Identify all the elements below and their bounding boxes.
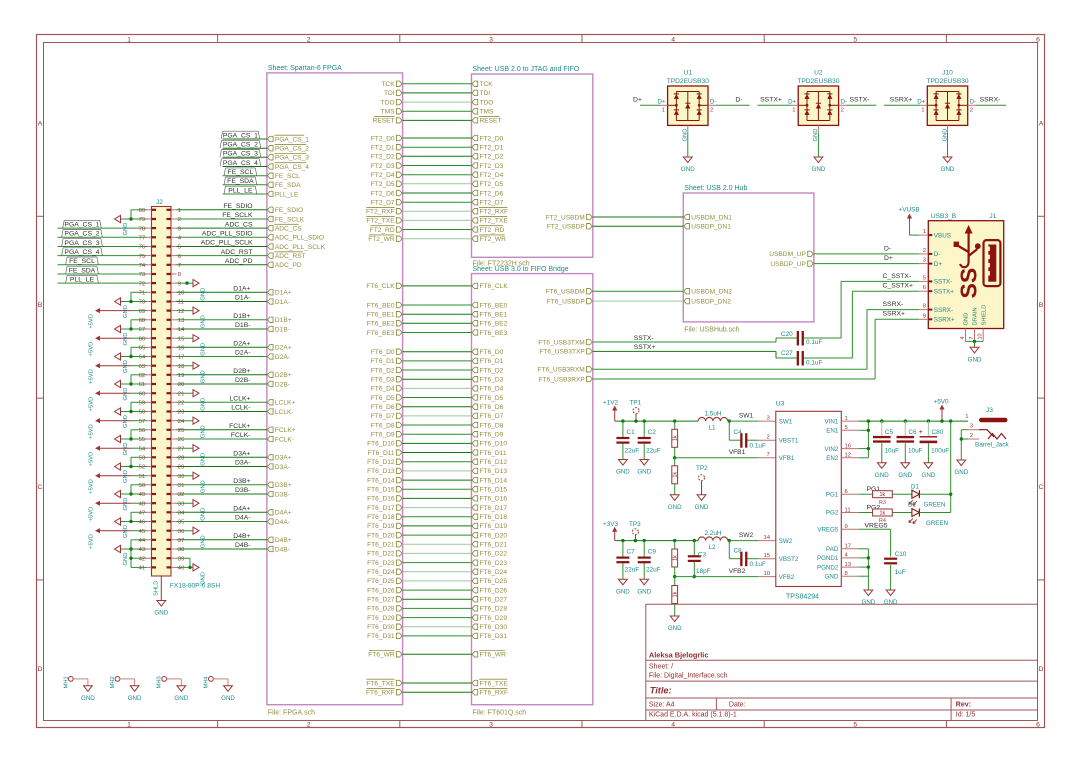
svg-text:FX18-80P-0.8SH: FX18-80P-0.8SH [170, 583, 220, 590]
svg-text:TPD2EUSB30: TPD2EUSB30 [667, 78, 709, 85]
svg-text:TPD2EUSB30: TPD2EUSB30 [926, 78, 968, 85]
svg-text:C7: C7 [627, 549, 636, 556]
svg-text:KiCad E.D.A. kicad (5.1.8)-1: KiCad E.D.A. kicad (5.1.8)-1 [649, 711, 737, 718]
svg-text:GND: GND [681, 166, 695, 173]
svg-text:PGA_CS_1: PGA_CS_1 [275, 136, 309, 143]
svg-text:1.5uH: 1.5uH [704, 411, 721, 418]
svg-text:FT2_D0: FT2_D0 [480, 135, 504, 142]
svg-text:+1V2: +1V2 [603, 400, 619, 407]
svg-text:11: 11 [178, 300, 184, 306]
svg-text:FT6_D6: FT6_D6 [371, 404, 395, 411]
svg-text:Date:: Date: [729, 702, 746, 709]
svg-text:9: 9 [178, 281, 181, 287]
svg-text:16: 16 [178, 346, 185, 352]
svg-text:GND: GND [812, 166, 826, 173]
svg-text:9: 9 [923, 313, 926, 319]
svg-text:ADC_RST: ADC_RST [221, 249, 253, 256]
svg-text:Rev:: Rev: [956, 702, 971, 709]
svg-text:FT6_RXF: FT6_RXF [480, 690, 509, 697]
svg-text:ADC_PLL_SDIO: ADC_PLL_SDIO [202, 231, 253, 238]
svg-text:23: 23 [178, 410, 185, 416]
svg-text:5: 5 [853, 722, 857, 729]
svg-text:TP1: TP1 [630, 400, 642, 407]
svg-text:13: 13 [845, 562, 852, 568]
svg-text:2: 2 [923, 248, 926, 254]
svg-text:C4: C4 [734, 429, 743, 436]
svg-text:FT6_D30: FT6_D30 [480, 624, 508, 631]
svg-text:79: 79 [139, 217, 146, 223]
svg-text:+5VD: +5VD [89, 534, 95, 549]
svg-text:PGA_CS_4: PGA_CS_4 [275, 164, 309, 171]
svg-text:FT2_D5: FT2_D5 [480, 181, 504, 188]
svg-text:1k: 1k [880, 511, 886, 517]
svg-text:SSTX+: SSTX+ [760, 97, 782, 104]
svg-text:FT6_BE3: FT6_BE3 [367, 330, 395, 337]
svg-text:U3: U3 [776, 401, 785, 408]
svg-text:FT6_D5: FT6_D5 [480, 395, 504, 402]
svg-text:2: 2 [841, 108, 844, 114]
svg-text:FT6_BE1: FT6_BE1 [367, 312, 395, 319]
svg-text:24: 24 [178, 419, 185, 425]
svg-text:SW1: SW1 [779, 418, 793, 425]
svg-text:SSRX+: SSRX+ [890, 97, 913, 104]
svg-text:USBDP_DN1: USBDP_DN1 [691, 224, 731, 231]
svg-text:D1B-: D1B- [275, 326, 290, 333]
svg-text:D4A+: D4A+ [233, 506, 250, 513]
svg-text:EN2: EN2 [826, 455, 839, 462]
svg-text:D: D [1039, 666, 1044, 673]
svg-text:D3A-: D3A- [235, 460, 251, 467]
svg-text:FT6_D21: FT6_D21 [367, 542, 395, 549]
svg-text:C80: C80 [932, 429, 944, 436]
svg-text:FT6_D16: FT6_D16 [367, 496, 395, 503]
svg-text:29: 29 [178, 465, 185, 471]
svg-text:D: D [38, 666, 43, 673]
svg-text:25: 25 [178, 428, 185, 434]
svg-text:DRAIN: DRAIN [972, 307, 978, 325]
svg-text:FT6_USB3RXM: FT6_USB3RXM [538, 367, 585, 374]
svg-text:15: 15 [764, 553, 771, 559]
svg-text:L1: L1 [708, 425, 716, 432]
svg-text:FT6_D11: FT6_D11 [480, 450, 507, 457]
svg-text:FT6_D23: FT6_D23 [480, 560, 508, 567]
svg-text:18pF: 18pF [696, 568, 711, 575]
svg-text:GND: GND [123, 223, 129, 236]
svg-text:TP2: TP2 [696, 465, 708, 472]
svg-text:D+: D+ [917, 98, 925, 105]
svg-text:GND: GND [123, 498, 129, 511]
svg-text:J2: J2 [156, 199, 163, 206]
svg-text:6: 6 [1036, 37, 1040, 44]
svg-text:1k: 1k [880, 492, 886, 498]
svg-text:GND: GND [637, 469, 651, 476]
svg-text:FT6_D1: FT6_D1 [371, 358, 395, 365]
svg-text:FT6_D29: FT6_D29 [480, 615, 508, 622]
svg-text:D2B-: D2B- [275, 381, 290, 388]
svg-text:Sheet: /: Sheet: / [649, 664, 673, 671]
svg-text:FT6_D0: FT6_D0 [480, 349, 504, 356]
svg-text:34: 34 [178, 511, 185, 517]
svg-text:D3B-: D3B- [275, 491, 290, 498]
svg-text:55: 55 [139, 437, 146, 443]
svg-text:FE_SCL: FE_SCL [69, 258, 95, 265]
svg-text:70: 70 [139, 300, 146, 306]
svg-text:GND: GND [884, 599, 898, 606]
svg-text:4: 4 [671, 37, 675, 44]
svg-text:VREG5: VREG5 [865, 523, 888, 530]
svg-text:1: 1 [662, 108, 665, 114]
svg-text:ADC_CS: ADC_CS [225, 221, 253, 228]
svg-text:67: 67 [139, 327, 146, 333]
svg-text:PGA_CS_2: PGA_CS_2 [275, 146, 309, 153]
svg-text:D2B+: D2B+ [233, 368, 250, 375]
svg-text:73: 73 [139, 272, 146, 278]
svg-text:SSTX+: SSTX+ [634, 344, 656, 351]
svg-text:FT6_CLK: FT6_CLK [480, 283, 509, 290]
svg-text:FT6_D17: FT6_D17 [480, 505, 508, 512]
svg-text:10uF: 10uF [908, 448, 923, 455]
svg-text:GND: GND [123, 443, 129, 456]
svg-text:D2: D2 [908, 501, 916, 508]
svg-text:FT6_D23: FT6_D23 [367, 560, 395, 567]
svg-text:FT6_BE1: FT6_BE1 [480, 312, 508, 319]
svg-text:FT6_D28: FT6_D28 [367, 606, 395, 613]
svg-text:FT6_D27: FT6_D27 [367, 597, 395, 604]
svg-text:68: 68 [139, 318, 146, 324]
svg-text:17: 17 [845, 544, 852, 550]
svg-text:51: 51 [139, 474, 146, 480]
svg-text:ADC_PD: ADC_PD [225, 258, 253, 265]
svg-text:D1A-: D1A- [275, 299, 290, 306]
svg-text:FT6_D13: FT6_D13 [480, 468, 508, 475]
svg-text:44: 44 [139, 538, 146, 544]
svg-text:USBDM_DN2: USBDM_DN2 [691, 289, 732, 296]
svg-text:FT6_D22: FT6_D22 [480, 551, 508, 558]
svg-text:LCLK+: LCLK+ [230, 396, 251, 403]
svg-text:1: 1 [127, 722, 131, 729]
svg-text:PGA_CS_1: PGA_CS_1 [64, 222, 99, 229]
svg-text:35: 35 [178, 520, 185, 526]
svg-text:GND: GND [123, 333, 129, 346]
svg-text:FT2_D4: FT2_D4 [480, 172, 504, 179]
svg-text:A: A [1039, 120, 1044, 127]
svg-text:J1: J1 [989, 213, 996, 220]
svg-text:43: 43 [139, 547, 146, 553]
svg-text:FT6_D12: FT6_D12 [480, 459, 508, 466]
svg-text:GND: GND [201, 398, 207, 411]
svg-text:54: 54 [139, 446, 146, 452]
svg-text:26: 26 [178, 437, 185, 443]
svg-text:FT6_D26: FT6_D26 [367, 587, 395, 594]
svg-text:LCLK+: LCLK+ [275, 400, 295, 407]
svg-text:FT2_D0: FT2_D0 [371, 135, 395, 142]
svg-text:+5VD: +5VD [89, 479, 95, 494]
svg-text:0.1uF: 0.1uF [806, 359, 822, 366]
svg-text:+5VD: +5VD [89, 342, 95, 357]
svg-text:FE_SDA: FE_SDA [69, 267, 96, 274]
svg-text:D-: D- [841, 98, 848, 105]
svg-text:40: 40 [178, 566, 185, 572]
svg-text:FT6_D27: FT6_D27 [480, 597, 508, 604]
svg-text:SW2: SW2 [779, 538, 793, 545]
svg-text:FT2_D1: FT2_D1 [480, 145, 504, 152]
svg-text:1: 1 [792, 108, 795, 114]
svg-text:GND: GND [221, 695, 235, 702]
svg-text:PLL_LE: PLL_LE [70, 277, 95, 284]
svg-text:FT6_D13: FT6_D13 [367, 468, 395, 475]
svg-text:VFB1: VFB1 [779, 455, 795, 462]
svg-text:15: 15 [178, 336, 185, 342]
svg-text:FT6_D22: FT6_D22 [367, 551, 395, 558]
svg-text:FCLK-: FCLK- [231, 432, 251, 439]
svg-text:C: C [38, 484, 43, 491]
svg-text:FCLK+: FCLK+ [275, 427, 296, 434]
svg-text:63: 63 [139, 364, 146, 370]
svg-text:FT6_TXE: FT6_TXE [366, 680, 395, 687]
svg-text:GND: GND [201, 453, 207, 466]
svg-text:GND: GND [201, 572, 207, 585]
svg-text:TPS84294: TPS84294 [786, 594, 819, 601]
svg-text:GND: GND [668, 504, 682, 511]
svg-text:FT2_D7: FT2_D7 [480, 200, 504, 207]
svg-text:C8: C8 [734, 548, 743, 555]
svg-text:22uF: 22uF [646, 448, 661, 455]
svg-text:GND: GND [123, 470, 129, 483]
svg-text:FT2_D2: FT2_D2 [480, 154, 504, 161]
svg-text:1k: 1k [673, 591, 679, 597]
svg-text:FT2_D6: FT2_D6 [371, 190, 395, 197]
svg-text:10: 10 [978, 333, 984, 339]
svg-text:1: 1 [178, 208, 181, 214]
svg-text:PGA_CS_3: PGA_CS_3 [223, 151, 258, 158]
svg-text:U1: U1 [684, 70, 693, 77]
svg-text:47: 47 [139, 511, 146, 517]
svg-text:PGA_CS_2: PGA_CS_2 [64, 231, 99, 238]
svg-text:FT6_D26: FT6_D26 [480, 587, 508, 594]
svg-text:GND: GND [201, 343, 207, 356]
svg-text:32: 32 [178, 492, 185, 498]
svg-text:PLL_LE: PLL_LE [275, 191, 299, 198]
svg-text:+5VD: +5VD [89, 397, 95, 412]
svg-text:GND: GND [201, 535, 207, 548]
svg-text:GND: GND [123, 388, 129, 401]
svg-text:FT6_D28: FT6_D28 [480, 606, 508, 613]
svg-text:+5VD: +5VD [89, 369, 95, 384]
svg-text:FT2_D4: FT2_D4 [371, 172, 395, 179]
svg-text:56: 56 [139, 428, 146, 434]
svg-text:PGA_CS_4: PGA_CS_4 [64, 249, 99, 256]
svg-text:PGA_CS_4: PGA_CS_4 [223, 160, 258, 167]
svg-text:FE_SDIO: FE_SDIO [275, 207, 303, 214]
svg-text:GND: GND [695, 504, 709, 511]
svg-text:0.1uF: 0.1uF [750, 443, 766, 450]
svg-text:FT6_D15: FT6_D15 [480, 487, 508, 494]
svg-text:64: 64 [139, 355, 146, 361]
svg-text:TDI: TDI [480, 90, 491, 97]
svg-text:100uF: 100uF [931, 448, 949, 455]
svg-text:GND: GND [123, 553, 129, 566]
svg-text:7: 7 [969, 336, 975, 339]
svg-text:D-: D- [970, 98, 977, 105]
svg-text:FT2_D2: FT2_D2 [371, 154, 395, 161]
svg-text:D-: D- [934, 251, 941, 258]
svg-text:38: 38 [178, 547, 185, 553]
svg-text:D+: D+ [633, 97, 642, 104]
svg-text:GND: GND [174, 695, 188, 702]
svg-text:10uF: 10uF [885, 448, 900, 455]
svg-text:SHLD: SHLD [154, 581, 160, 596]
svg-text:FCLK+: FCLK+ [229, 423, 250, 430]
svg-text:C1: C1 [627, 429, 636, 436]
svg-text:PLL_LE: PLL_LE [228, 187, 253, 194]
svg-text:FT6_D29: FT6_D29 [367, 615, 395, 622]
svg-text:VBUS: VBUS [934, 232, 951, 239]
svg-text:File: FT601Q.sch: File: FT601Q.sch [473, 710, 527, 717]
svg-text:28: 28 [178, 456, 185, 462]
svg-text:3: 3 [489, 722, 493, 729]
svg-text:D2A-: D2A- [275, 354, 290, 361]
svg-text:7: 7 [178, 263, 181, 269]
svg-text:ADC_CS: ADC_CS [275, 225, 302, 232]
svg-text:FT6_BE2: FT6_BE2 [480, 321, 508, 328]
svg-text:75: 75 [139, 254, 146, 260]
svg-text:PGA_CS_2: PGA_CS_2 [223, 142, 258, 149]
svg-text:45: 45 [139, 529, 146, 535]
svg-text:GND: GND [898, 472, 912, 479]
svg-text:PGA_CS_3: PGA_CS_3 [275, 155, 309, 162]
svg-text:FT6_D9: FT6_D9 [371, 432, 395, 439]
svg-text:10: 10 [764, 571, 771, 577]
svg-text:FT6_WR: FT6_WR [480, 652, 507, 659]
svg-text:PG2: PG2 [826, 510, 839, 517]
svg-text:60: 60 [139, 391, 146, 397]
svg-text:Sheet: Spartan-6 FPGA: Sheet: Spartan-6 FPGA [268, 65, 342, 72]
svg-text:1: 1 [965, 414, 968, 420]
svg-text:D4A+: D4A+ [275, 510, 292, 517]
svg-text:FT6_RXF: FT6_RXF [366, 690, 395, 697]
svg-text:FT6_D7: FT6_D7 [371, 413, 395, 420]
svg-text:71: 71 [139, 291, 146, 297]
svg-text:+5V0: +5V0 [934, 399, 950, 406]
svg-text:80: 80 [139, 208, 146, 214]
svg-text:78: 78 [139, 226, 146, 232]
svg-text:FE_SCL: FE_SCL [228, 169, 254, 176]
svg-text:SSRX-: SSRX- [883, 301, 904, 308]
svg-text:VFB2: VFB2 [729, 568, 746, 575]
svg-text:GND: GND [123, 525, 129, 538]
svg-text:58: 58 [139, 410, 146, 416]
svg-text:TDO: TDO [480, 99, 494, 106]
svg-text:RESET: RESET [373, 118, 395, 125]
svg-text:FT2_WR: FT2_WR [368, 236, 395, 243]
svg-text:SSRX-: SSRX- [980, 97, 1001, 104]
svg-text:FT6_D2: FT6_D2 [371, 367, 395, 374]
svg-text:D1A+: D1A+ [275, 290, 292, 297]
svg-text:FT6_D30: FT6_D30 [367, 624, 395, 631]
svg-text:77: 77 [139, 236, 146, 242]
svg-text:PGND1: PGND1 [817, 555, 839, 562]
svg-text:D2B+: D2B+ [275, 372, 292, 379]
svg-text:File: FPGA.sch: File: FPGA.sch [268, 710, 315, 717]
svg-text:62: 62 [139, 373, 146, 379]
svg-text:PGA_CS_1: PGA_CS_1 [223, 132, 258, 139]
svg-text:FT6_BE3: FT6_BE3 [480, 330, 508, 337]
svg-text:FT6_D24: FT6_D24 [480, 569, 508, 576]
svg-text:2: 2 [767, 434, 770, 440]
svg-text:SHIELD: SHIELD [981, 305, 987, 326]
svg-text:13: 13 [178, 318, 185, 324]
svg-text:FT6_USBDM: FT6_USBDM [546, 289, 585, 296]
svg-text:4: 4 [671, 722, 675, 729]
svg-text:TPD2EUSB30: TPD2EUSB30 [797, 78, 839, 85]
svg-text:FT2_D7: FT2_D7 [371, 200, 395, 207]
svg-text:FT6_D17: FT6_D17 [367, 505, 395, 512]
svg-text:C20: C20 [781, 331, 793, 338]
svg-text:1k: 1k [673, 472, 679, 478]
svg-text:FT6_D7: FT6_D7 [480, 413, 504, 420]
svg-text:C3: C3 [698, 552, 707, 559]
svg-text:0.1uF: 0.1uF [750, 561, 766, 568]
svg-text:FT2_RD: FT2_RD [480, 227, 505, 234]
svg-text:LCLK-: LCLK- [275, 409, 294, 416]
svg-text:69: 69 [139, 309, 146, 315]
svg-text:D4B-: D4B- [235, 542, 251, 549]
svg-text:14: 14 [764, 535, 771, 541]
svg-text:GND: GND [922, 472, 936, 479]
svg-text:USBDP_UP: USBDP_UP [770, 261, 806, 268]
svg-text:D1: D1 [911, 483, 919, 490]
svg-text:11: 11 [845, 507, 851, 513]
svg-text:FE_SCLK: FE_SCLK [222, 212, 253, 219]
svg-text:FCLK-: FCLK- [275, 436, 294, 443]
svg-text:FT2_D3: FT2_D3 [371, 163, 395, 170]
svg-text:PG1: PG1 [867, 486, 881, 493]
svg-text:FT6_D14: FT6_D14 [367, 477, 395, 484]
svg-text:FT6_D19: FT6_D19 [480, 523, 508, 530]
svg-text:22uF: 22uF [625, 448, 640, 455]
svg-text:53: 53 [139, 456, 146, 462]
svg-text:FT6_D14: FT6_D14 [480, 477, 508, 484]
svg-text:+5VD: +5VD [89, 452, 95, 467]
svg-text:+5VD: +5VD [89, 507, 95, 522]
svg-text:C: C [1039, 484, 1044, 491]
svg-text:GND: GND [128, 695, 142, 702]
svg-text:FT6_D10: FT6_D10 [480, 441, 508, 448]
svg-text:12: 12 [845, 453, 852, 459]
svg-text:SSRX+: SSRX+ [934, 317, 955, 324]
svg-text:PGA_CS_3: PGA_CS_3 [64, 240, 99, 247]
svg-text:D1B-: D1B- [235, 322, 251, 329]
svg-text:USBDP_DN2: USBDP_DN2 [691, 298, 731, 305]
svg-text:+3V3: +3V3 [603, 521, 619, 528]
svg-text:FE_SCL: FE_SCL [275, 173, 300, 180]
svg-text:FT6_D2: FT6_D2 [480, 367, 504, 374]
svg-text:C_SSTX-: C_SSTX- [883, 273, 912, 280]
svg-text:C2: C2 [648, 429, 657, 436]
svg-text:J3: J3 [986, 407, 993, 414]
svg-text:FT6_D16: FT6_D16 [480, 496, 508, 503]
svg-text:TCK: TCK [381, 81, 395, 88]
svg-text:D4A-: D4A- [235, 515, 251, 522]
svg-text:TDI: TDI [384, 90, 395, 97]
svg-text:74: 74 [139, 263, 146, 269]
svg-text:42: 42 [139, 556, 146, 562]
svg-text:D3A+: D3A+ [275, 455, 292, 462]
svg-text:FT6_D15: FT6_D15 [367, 487, 395, 494]
svg-text:GND: GND [81, 695, 95, 702]
svg-text:GND: GND [875, 472, 889, 479]
svg-text:18: 18 [178, 364, 185, 370]
